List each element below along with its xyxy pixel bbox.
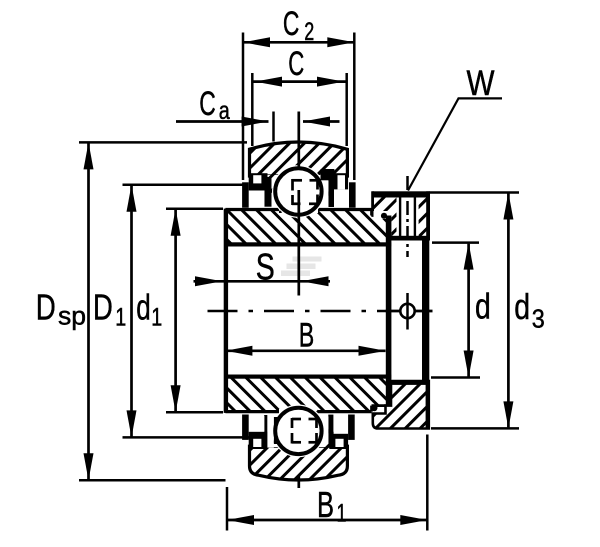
svg-text:d: d bbox=[514, 286, 530, 327]
svg-text:a: a bbox=[219, 97, 230, 125]
svg-text:1: 1 bbox=[151, 304, 162, 332]
svg-text:D: D bbox=[93, 287, 113, 328]
svg-text:d: d bbox=[136, 287, 151, 328]
svg-text:B: B bbox=[317, 484, 334, 525]
svg-text:2: 2 bbox=[304, 18, 314, 46]
svg-text:S: S bbox=[256, 246, 275, 287]
svg-text:W: W bbox=[467, 64, 495, 103]
svg-text:C: C bbox=[283, 5, 300, 43]
svg-text:3: 3 bbox=[532, 306, 545, 334]
svg-text:1: 1 bbox=[337, 500, 347, 528]
svg-text:d: d bbox=[475, 286, 491, 327]
svg-text:C: C bbox=[288, 45, 304, 83]
svg-text:D: D bbox=[36, 287, 56, 328]
svg-text:C: C bbox=[199, 85, 216, 123]
svg-text:sp: sp bbox=[58, 301, 86, 331]
svg-text:B: B bbox=[299, 317, 315, 355]
svg-text:1: 1 bbox=[115, 304, 126, 332]
